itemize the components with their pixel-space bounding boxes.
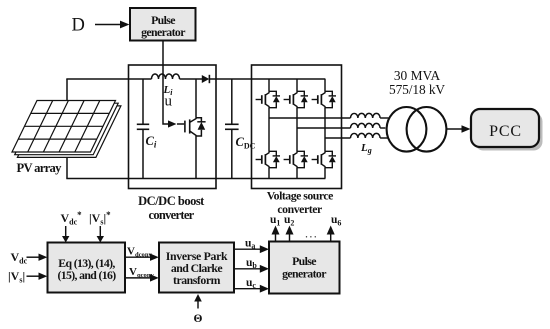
wire uc arrow [234,288,263,290]
inductor Lg phase c [351,133,381,138]
wire PV riser [66,79,68,179]
svg-text:generator: generator [141,25,185,39]
wire VSC leg 1 middle [268,108,270,152]
wire ua arrow [234,248,263,250]
wire Vdc* stub [65,226,67,236]
svg-text:generator: generator [282,267,326,281]
transistor S2 (IGBT with diode) [284,91,308,107]
wire VSC leg 2 middle [296,108,298,152]
svg-text:PV array: PV array [17,161,63,175]
wire VSC leg 2 bottom [296,168,298,179]
wire Vs* stub [99,226,101,236]
svg-text:Voltage source: Voltage source [267,188,333,202]
svg-text:575/18 kV: 575/18 kV [389,82,445,97]
svg-text:(15), and (16): (15), and (16) [57,268,116,282]
svg-text:DC/DC boost: DC/DC boost [138,194,205,208]
pulse generator U1 box [130,8,196,41]
wire top rail left [66,78,151,80]
wire VSC leg 3 top [324,79,326,91]
svg-text:D: D [72,16,85,36]
wire theta arrow [197,301,199,309]
wire transformer to PCC [447,128,464,130]
capacitor CDC [231,79,233,124]
wire u6 stub [330,232,332,242]
wire Vs input arrow [27,275,42,277]
svg-text:Θ: Θ [194,313,203,325]
wire phase c [325,137,351,139]
wire D to pulse generator [95,24,123,26]
PV array panel [12,101,121,158]
svg-text:|Vs|: |Vs| [8,269,25,285]
wire ub arrow [234,268,263,270]
wire Vdconv arrow [125,256,153,258]
pulse generator block (bottom) [269,242,340,294]
inductor Lg phase a [351,113,381,118]
wire VSC leg 3 bottom [324,168,326,179]
transistor S6 (IGBT with diode) [312,151,336,167]
capacitor Ci [142,79,144,124]
transistor S3 (IGBT with diode) [312,91,336,107]
wire u2 stub [289,232,291,242]
transistor S5 (IGBT with diode) [284,151,308,167]
svg-text:...: ... [305,227,318,241]
inductor Lg phase b [351,123,381,128]
Eq block [48,243,126,293]
svg-text:u: u [165,94,173,110]
wire bottom rail [66,178,325,180]
PCC box [475,113,543,151]
VSC box [252,65,342,189]
transistor S1 (IGBT with diode) [256,91,280,107]
svg-text:PCC: PCC [489,123,522,140]
wire phase b [297,127,351,129]
diode D1 [202,75,209,83]
wire VSC leg 1 bottom [268,168,270,179]
wire VSC leg 1 top [268,79,270,91]
wire VSC leg 3 middle [324,108,326,152]
wire Vdc input arrow [27,256,42,258]
svg-text:converter: converter [148,208,194,222]
wire Vqconv arrow [125,277,153,279]
svg-text:transform: transform [173,273,221,287]
wire top rail right [210,78,325,80]
wire phase a [269,117,351,119]
wire gate drive from pulse generator [163,41,171,125]
transistor S4 (IGBT with diode) [256,151,280,167]
transistor Q1 (boost IGBT) [177,79,206,179]
inductor Li [152,74,180,79]
wire u1 stub [275,232,277,242]
inverse Park block [159,243,234,293]
wire top rail mid [180,78,203,80]
transformer T1 [387,107,427,152]
wire VSC leg 2 top [296,79,298,91]
boost converter box [129,65,217,189]
